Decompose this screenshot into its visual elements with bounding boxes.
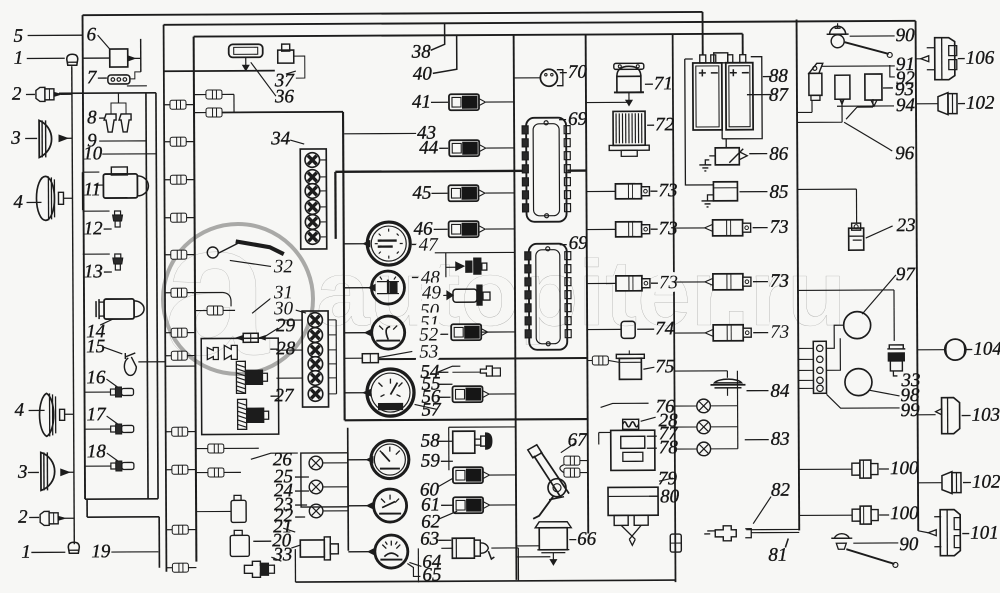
lamp 25 indicator	[309, 456, 323, 470]
wire comp37 bracket	[294, 56, 305, 78]
svg-text:69: 69	[568, 109, 588, 130]
svg-text:71: 71	[654, 73, 673, 94]
fuse link G y471	[208, 468, 224, 477]
gauge 51 ammeter	[372, 316, 405, 349]
svg-text:67: 67	[568, 430, 589, 451]
leader 3 top	[25, 137, 37, 139]
leader 64	[409, 562, 421, 566]
leader 19 wire	[111, 551, 158, 553]
gauge 64 fuel level	[375, 535, 408, 568]
wire to gauge51	[344, 332, 365, 334]
leader 48	[412, 276, 420, 278]
leader 67	[561, 443, 576, 453]
wire to sender 50	[420, 295, 447, 296]
svg-text:73: 73	[659, 218, 678, 239]
leader 96	[844, 122, 892, 151]
wire top bus L2	[164, 21, 916, 25]
svg-text:13: 13	[84, 261, 103, 282]
component 82 sensor plug	[715, 526, 736, 541]
wire 76 box left	[599, 431, 611, 433]
leader 1 bottom	[31, 551, 65, 553]
wire strip28 left stubs	[276, 319, 302, 321]
leader 54	[437, 366, 460, 372]
wires alternator	[826, 325, 844, 370]
wire to gauge47	[344, 243, 364, 245]
leader 60	[437, 478, 453, 487]
wire to 102 top	[916, 103, 938, 105]
leader 82	[753, 497, 771, 524]
svg-text:72: 72	[655, 114, 675, 135]
wire comp2b	[65, 517, 74, 519]
connector 75 inline	[592, 356, 608, 365]
wire bottom jog lower	[87, 516, 159, 518]
svg-text:10: 10	[83, 143, 103, 164]
wire comp18 stub	[85, 465, 111, 467]
svg-text:19: 19	[91, 541, 111, 562]
fuse link F y253	[171, 250, 187, 259]
leader 16	[106, 379, 117, 387]
component 69 fuse block lower	[529, 244, 568, 350]
wire fuse rail right x195	[194, 37, 197, 562]
wire horizontal y91	[59, 92, 156, 95]
leader 90 top	[850, 35, 895, 37]
wire strip28 bus	[335, 320, 337, 394]
svg-text:94: 94	[896, 95, 916, 116]
fuse link G y309	[207, 306, 223, 315]
svg-text:2: 2	[12, 84, 22, 105]
wire 41 to rail	[486, 101, 514, 103]
wire 58 bracket	[448, 427, 450, 470]
wire bottom bus y581	[295, 580, 675, 582]
svg-text:36: 36	[274, 86, 295, 107]
svg-text:29: 29	[276, 315, 296, 336]
wire far-left lamp rail	[72, 67, 74, 544]
fuse link F y354	[171, 351, 187, 360]
wire pump drop	[294, 549, 296, 582]
component 6 regulator box	[110, 49, 128, 67]
wire rail C lower drop	[158, 517, 160, 568]
component 58 buzzer	[453, 431, 475, 453]
leader 1 top	[27, 57, 65, 59]
component 90 top brake switch	[830, 26, 846, 34]
leader 12	[104, 228, 112, 230]
lamp 24 indicator	[309, 480, 323, 494]
component 32 column switch lever	[236, 241, 284, 254]
svg-text:85: 85	[769, 182, 788, 203]
component 5 leader wire	[28, 34, 83, 36]
wire y291 to corner	[192, 291, 223, 293]
spark plug connector upper	[246, 370, 262, 384]
leader 56	[438, 396, 451, 398]
gauge 47 clock	[367, 222, 410, 265]
leader 40	[433, 35, 457, 73]
wire 45 to rail	[485, 192, 514, 194]
wire battery panel rail x674	[673, 34, 676, 582]
leader 26	[251, 453, 298, 459]
component 7 relay strip	[108, 75, 130, 84]
wire battery left outer loop to 85	[685, 59, 714, 185]
wire comp12 stub	[83, 210, 110, 212]
svg-text:75: 75	[655, 356, 674, 377]
leader 36	[251, 62, 276, 96]
component 52 fuse block	[451, 324, 488, 340]
svg-text:45: 45	[412, 183, 431, 204]
svg-text:32: 32	[273, 256, 294, 277]
component 27 resistor box	[201, 338, 279, 434]
svg-text:73: 73	[770, 217, 789, 238]
component 41 relay block	[449, 94, 486, 110]
component 4 top side lamp	[36, 176, 54, 220]
component 15 turn switch lever	[124, 353, 136, 376]
component 34 terminal strip upper	[300, 149, 327, 249]
svg-text:46: 46	[414, 219, 434, 240]
gauge 54-57 speedometer	[367, 369, 414, 416]
component 85 relay	[713, 182, 737, 201]
leader 17	[107, 416, 118, 424]
leader 93	[883, 87, 893, 89]
rod 90 top	[845, 42, 889, 54]
fuse link G y447	[208, 444, 224, 453]
component 106 tail lamp connector	[935, 38, 955, 80]
svg-text:83: 83	[771, 429, 790, 450]
leader 8	[99, 117, 105, 119]
lamp 83 a	[697, 399, 711, 413]
leader 61	[441, 504, 453, 506]
component 28-30 terminal strip lower	[302, 311, 329, 407]
wire 53 left	[344, 357, 362, 359]
wire top bus L1	[83, 12, 703, 15]
wire heavy feed y171	[335, 171, 526, 172]
svg-text:12: 12	[84, 218, 104, 239]
alternator 98 circle	[845, 369, 872, 396]
leader 59	[441, 460, 453, 462]
fuse link F y178	[170, 175, 186, 184]
wires 96 bundle	[797, 99, 873, 122]
svg-text:65: 65	[422, 565, 441, 586]
svg-text:6: 6	[87, 24, 97, 45]
relay 73 b	[616, 222, 650, 237]
component 50 sender motor	[447, 291, 453, 299]
svg-text:40: 40	[413, 64, 433, 85]
svg-text:84: 84	[770, 381, 790, 402]
svg-text:99: 99	[901, 400, 921, 421]
fuse link F y291	[171, 288, 187, 297]
wire lamp bus right	[736, 371, 738, 449]
leader 74	[637, 328, 654, 330]
svg-text:4: 4	[15, 400, 25, 421]
svg-text:17: 17	[87, 404, 108, 425]
leader 83	[745, 439, 769, 441]
relay 73 a	[615, 184, 649, 199]
component 3 bottom headlamp	[41, 452, 55, 490]
wire bottom jog upper	[85, 498, 158, 500]
wire 58 top	[449, 426, 516, 428]
svg-text:5: 5	[14, 26, 24, 47]
gauge 48 fuel gauge	[371, 271, 404, 304]
component 84 horn disc	[714, 379, 741, 383]
wire fuse309 stub	[223, 309, 235, 311]
svg-text:102: 102	[972, 472, 1000, 493]
gauge 58-59 tachometer	[371, 440, 409, 478]
leader 66	[569, 539, 576, 541]
svg-text:4: 4	[13, 192, 23, 213]
wire to 102 bottom	[918, 482, 942, 484]
svg-text:16: 16	[86, 367, 106, 388]
component 36 washer reservoir	[229, 44, 263, 57]
leader 10 wire	[102, 153, 156, 155]
svg-text:21: 21	[273, 516, 292, 537]
svg-text:104: 104	[973, 339, 1000, 360]
svg-text:8: 8	[87, 107, 97, 128]
leader 22	[295, 516, 305, 518]
leader 85	[739, 191, 767, 193]
wire nozzle tee	[111, 103, 126, 114]
watermark logo circle	[163, 224, 313, 374]
leader 52	[437, 333, 448, 335]
leader 63	[438, 539, 451, 541]
component 31 leader	[252, 294, 276, 313]
leader 3 bottom	[28, 471, 39, 473]
wire drop x142	[140, 39, 142, 72]
wire far right rail x917	[916, 21, 919, 531]
inline fuse on rail x674	[670, 534, 681, 552]
svg-text:28: 28	[276, 338, 296, 359]
battery bridge cap	[714, 53, 728, 63]
leader 4 bottom	[29, 409, 45, 411]
svg-text:70: 70	[568, 62, 588, 83]
component 43-44 relay block	[449, 140, 486, 156]
leader 80	[649, 495, 658, 497]
wire inner rail C	[156, 93, 158, 499]
leader 69 upper	[559, 119, 566, 121]
wire 60 to rail	[489, 474, 516, 476]
svg-text:34: 34	[270, 128, 291, 149]
wire comp16 stub	[84, 391, 110, 393]
wire right panel rail x798	[797, 19, 800, 530]
fuse link F y216	[171, 213, 187, 222]
wire cross link y364	[165, 365, 195, 367]
svg-text:73: 73	[658, 180, 677, 201]
component 56 fuse block	[452, 386, 489, 402]
component 14 generator	[104, 299, 134, 319]
leader 33 bottom	[271, 557, 281, 561]
wire heavy y359	[378, 358, 587, 359]
wire fuse rail left x165	[164, 25, 167, 572]
lamp 83 c	[697, 442, 711, 456]
component 103 side lamp	[942, 398, 960, 434]
wire battery panel bottom	[746, 528, 799, 530]
alternator terminal block	[813, 341, 826, 393]
wire dash panel rail x344	[343, 112, 345, 420]
component 74 flasher	[621, 321, 635, 338]
wire comp13 stub	[83, 253, 110, 255]
wire battery right outer loop	[722, 57, 762, 139]
svg-text:7: 7	[87, 67, 98, 88]
component 8 washer nozzles	[104, 114, 116, 132]
battery 87-88 cell left	[693, 63, 722, 130]
svg-text:100: 100	[890, 503, 919, 524]
component 101 tail lamp	[940, 510, 960, 556]
leader 32	[230, 260, 276, 267]
component 37 washer pump	[278, 50, 294, 63]
component 76-78 heater switch box	[611, 430, 655, 470]
svg-text:96: 96	[895, 143, 915, 164]
leader 18	[107, 453, 118, 461]
component 21 fuel pump	[300, 540, 324, 557]
component 94 small switch	[835, 75, 850, 99]
component 26 lamp box	[301, 453, 348, 507]
component 27 plug b	[224, 345, 237, 359]
wire fuse471 stub	[224, 471, 241, 473]
wire 63 left	[441, 547, 452, 549]
wire 44 to rail	[486, 147, 514, 149]
leader 65	[407, 563, 420, 576]
svg-text:74: 74	[655, 318, 675, 339]
component 67 brake lever	[528, 445, 542, 458]
wire fuse93 to corner	[222, 93, 234, 95]
rod 90 bottom	[846, 549, 894, 564]
component 11 wiper motor	[103, 174, 137, 198]
svg-text:86: 86	[769, 144, 789, 165]
wire 52 to rail	[481, 331, 515, 333]
wire comp1 drop dashed	[71, 65, 73, 93]
wire 63 right	[491, 547, 518, 549]
wire comp7 lower	[127, 85, 147, 87]
wire 56 to rail	[489, 393, 516, 395]
leader 62	[438, 511, 457, 519]
wire heavy drop x336	[334, 172, 337, 239]
component 2 top fog lamp plug	[36, 87, 61, 101]
connector pair 67a	[564, 456, 580, 465]
fuse link F y331	[171, 328, 187, 337]
svg-text:87: 87	[769, 85, 790, 106]
wire 33 right drop	[893, 308, 895, 341]
wire to gauge58	[348, 459, 367, 461]
wire comp6 arrow	[128, 56, 135, 61]
gauge 61 oil pressure	[374, 489, 407, 522]
wire to gauge61	[348, 505, 367, 507]
leader 92 bracket	[890, 65, 895, 77]
leader 57	[415, 404, 437, 409]
wire rail to comp6	[83, 57, 110, 59]
wire to 86	[725, 139, 727, 148]
coil 28 center	[623, 422, 639, 427]
component 91-92 fuse holder	[809, 63, 823, 73]
component 70 hazard switch	[540, 69, 557, 86]
component 102 bottom plug	[942, 472, 952, 494]
svg-text:3: 3	[17, 462, 28, 483]
component 16 sensor	[110, 387, 133, 397]
wire 66 bottom to rail	[516, 556, 550, 558]
svg-text:97: 97	[896, 264, 917, 285]
wire battery right terminal drop	[742, 34, 744, 55]
wire 46 to rail	[486, 228, 515, 230]
svg-text:69: 69	[569, 233, 589, 254]
leader 79	[659, 478, 673, 481]
wire 62 to rail	[489, 504, 516, 506]
leader 24	[295, 490, 309, 492]
lamp 22 indicator	[309, 504, 323, 518]
component 104 ring lamp	[945, 339, 966, 360]
wire to 101	[918, 531, 928, 533]
svg-text:1: 1	[14, 48, 24, 69]
fuse link F y468	[172, 465, 188, 474]
leader 78	[647, 447, 657, 449]
leader 23	[866, 226, 893, 238]
wire center panel rail x515	[514, 35, 517, 580]
fuse link F y528	[172, 525, 188, 534]
fuse link F y566	[172, 563, 188, 572]
spark plug connector lower	[248, 408, 264, 422]
svg-text:103: 103	[972, 405, 1000, 426]
wire to gauge64	[348, 551, 368, 553]
leader 7	[98, 77, 107, 79]
svg-text:2: 2	[18, 507, 28, 528]
leader 4 top	[27, 201, 42, 203]
leader 2 top	[26, 93, 35, 95]
wire to 106	[916, 58, 921, 60]
svg-text:11: 11	[83, 179, 101, 200]
leader 77	[647, 435, 657, 437]
leader 25	[295, 476, 309, 478]
wire to gauge54	[345, 392, 364, 394]
wire to 70	[514, 77, 540, 79]
leader 88	[763, 76, 771, 78]
wire strip34 bus	[325, 160, 327, 246]
leader 23	[295, 504, 307, 506]
wire dash panel bottom y420	[345, 419, 588, 420]
leader 84	[746, 390, 768, 392]
relay 73 c	[616, 276, 650, 291]
svg-text:90: 90	[899, 534, 919, 555]
component 45 relay block	[448, 185, 485, 201]
wire comp15 to rail	[138, 361, 165, 363]
component 23 lighter	[849, 228, 864, 250]
svg-text:15: 15	[86, 336, 105, 357]
wire to gauge48	[344, 287, 369, 289]
wire lower gauge rail x347	[347, 428, 350, 551]
leader 38	[431, 23, 445, 50]
svg-text:44: 44	[419, 138, 439, 159]
leader 87	[747, 94, 771, 96]
wire lamp bus top	[674, 370, 727, 372]
component 20 canister	[230, 535, 249, 556]
resistor 27 suppression element lower	[238, 399, 247, 429]
svg-text:33: 33	[272, 544, 292, 565]
leader 21	[283, 528, 295, 532]
component 71 ignition coil	[617, 76, 641, 92]
wire battery positive drop	[702, 12, 704, 55]
resistor 27 suppression element upper	[236, 361, 245, 393]
wire inner rail B	[146, 93, 148, 499]
leader 14	[100, 319, 113, 325]
component 62 fuse block	[453, 497, 490, 513]
component 4 bottom side lamp	[39, 393, 53, 436]
leader 97	[862, 275, 896, 314]
component 1 bottom parking light	[68, 542, 79, 553]
fuse link G y111	[206, 108, 222, 117]
leader 70	[560, 72, 567, 74]
connector 100 b	[852, 506, 878, 524]
wire 71 to rail	[586, 101, 629, 103]
component 29 inline connector	[243, 333, 258, 342]
wire to 104	[917, 349, 944, 351]
lamp 83 b	[697, 420, 711, 434]
fuse link G y93	[206, 90, 222, 99]
component 86 starter switch	[715, 148, 739, 165]
svg-text:59: 59	[421, 451, 441, 472]
svg-text:60: 60	[420, 480, 440, 501]
